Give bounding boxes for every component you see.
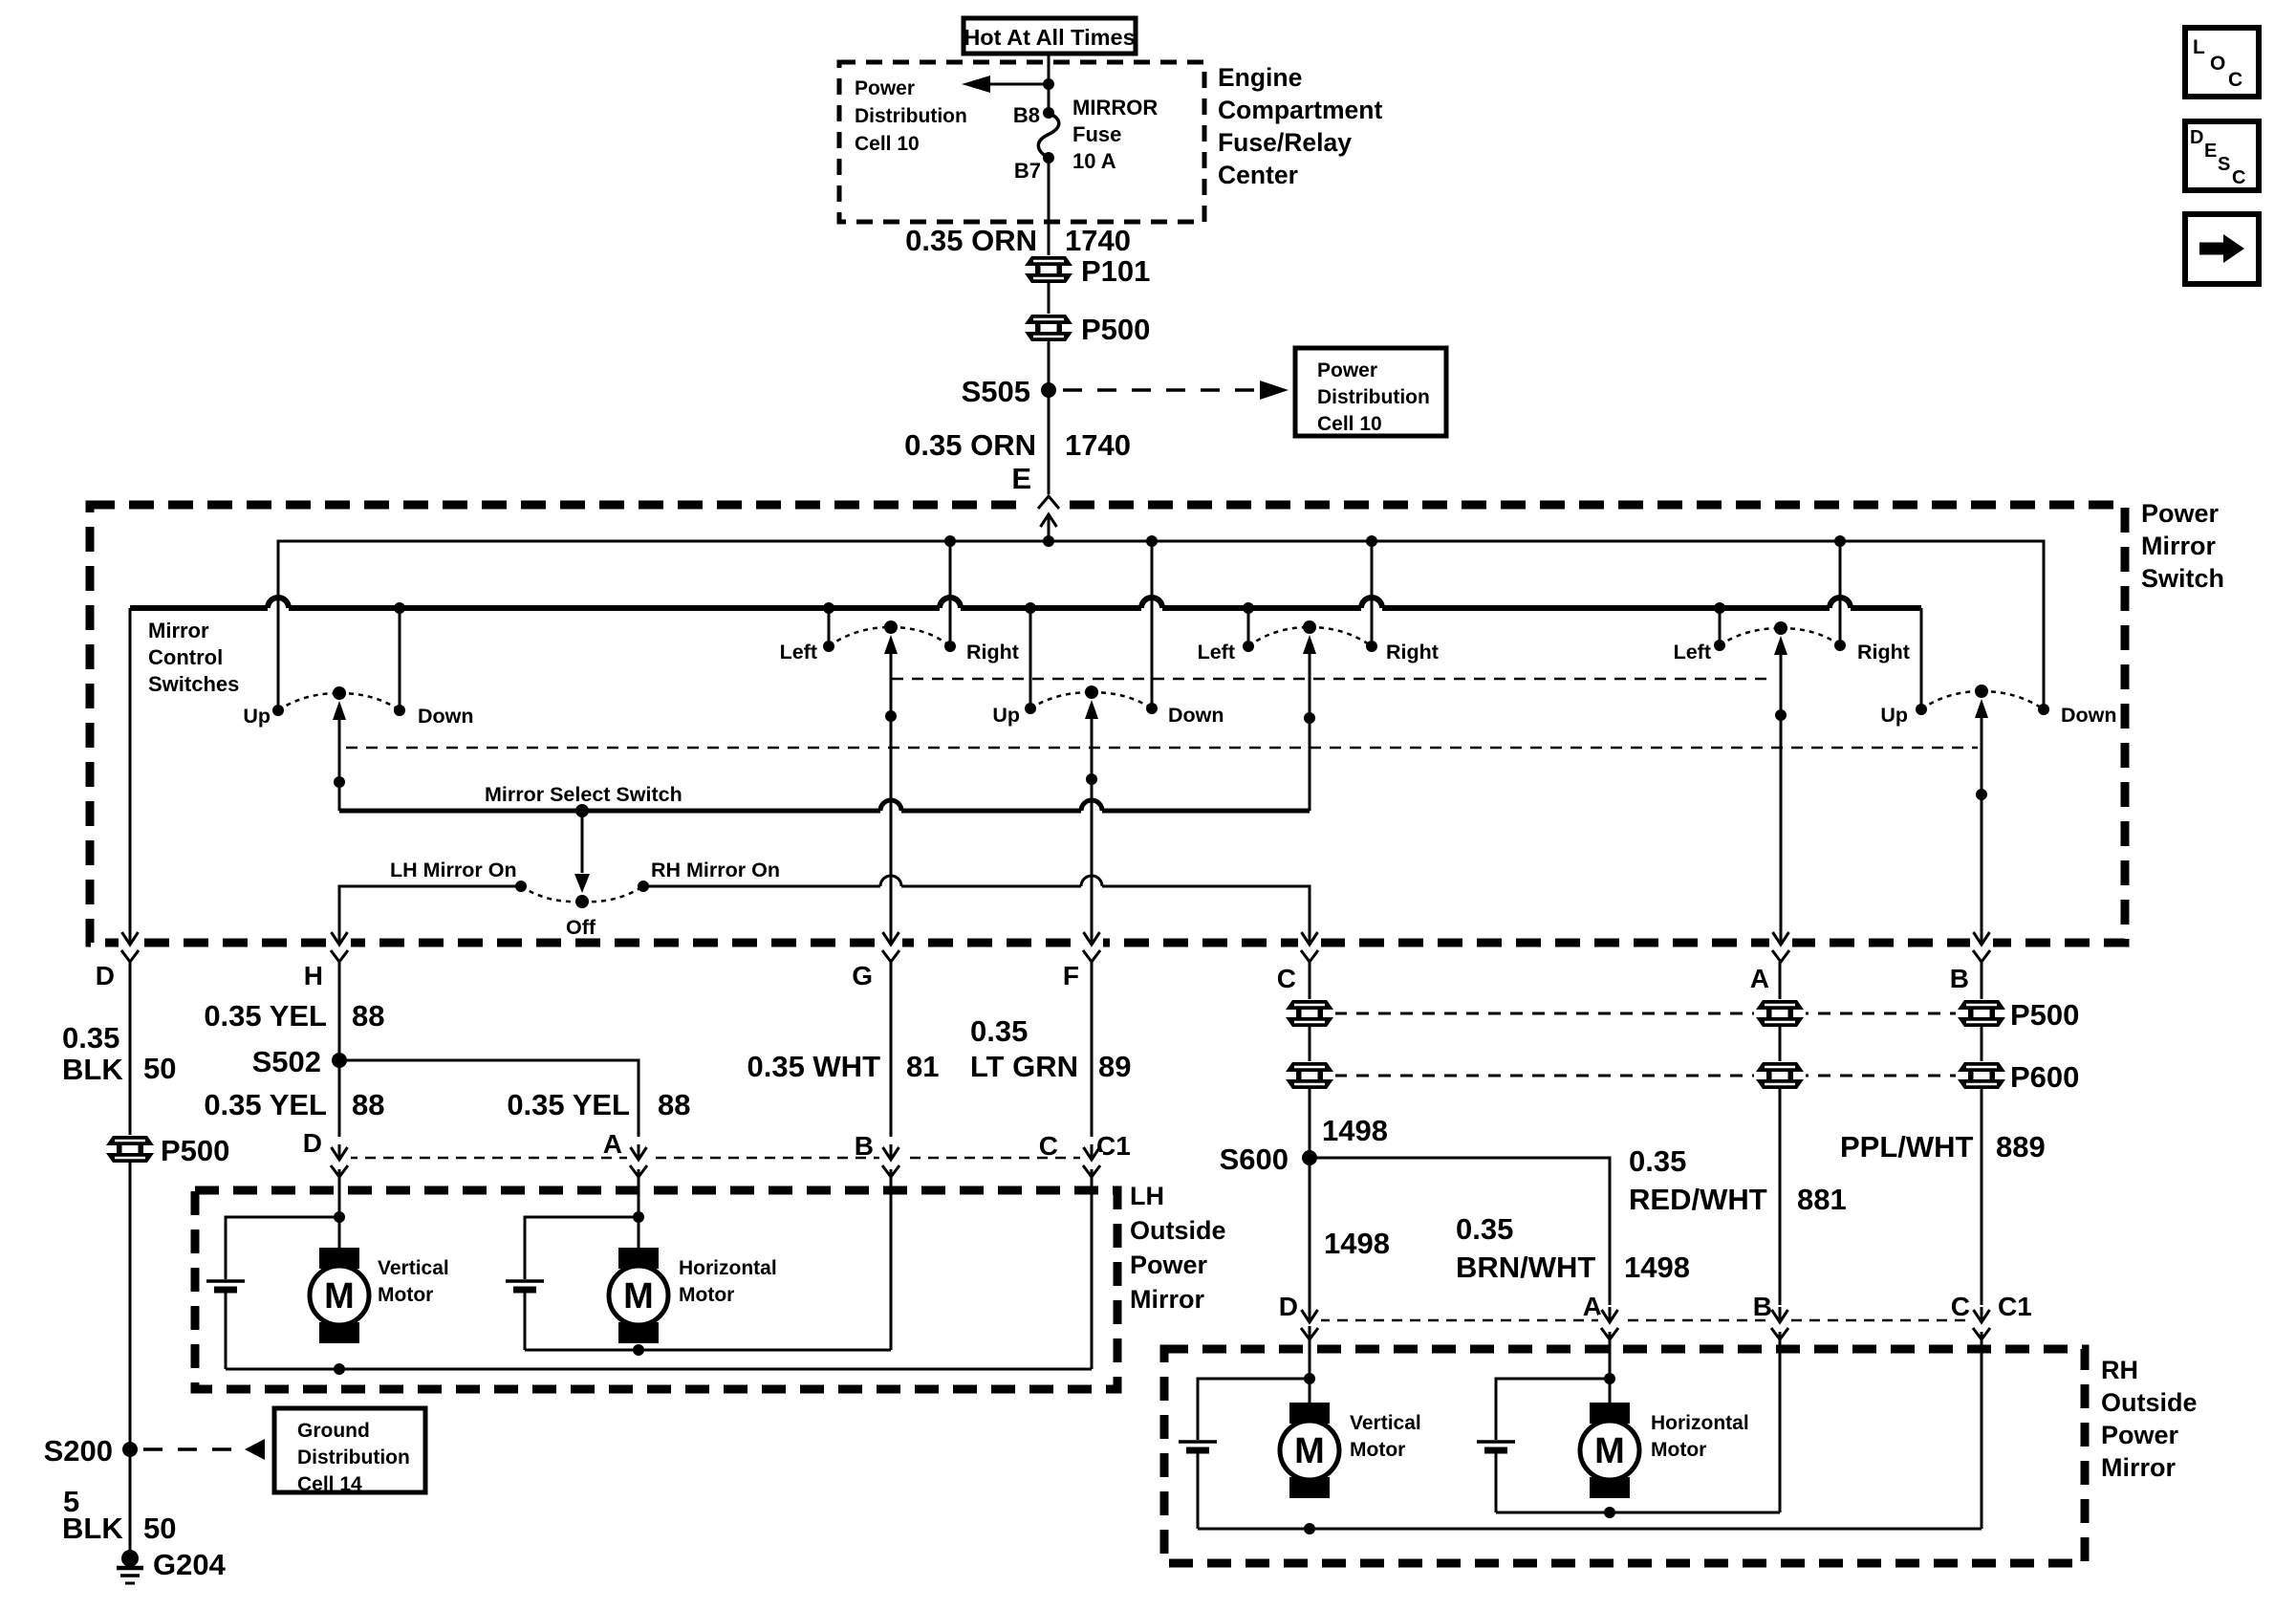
junction LH horizontal motor top	[633, 1211, 644, 1223]
svg-text:RH Mirror On: RH Mirror On	[651, 859, 780, 881]
wire feed from Hot At All Times to B8	[1048, 53, 1051, 112]
connector P600-C symbol	[1284, 1061, 1335, 1090]
svg-text:Right: Right	[1857, 641, 1910, 664]
battery plates LH horizontal	[506, 1281, 544, 1290]
svg-text:Up: Up	[243, 705, 271, 728]
icon box DESC	[2185, 121, 2259, 190]
connector P600-B symbol	[1956, 1061, 2007, 1090]
svg-text:Motor: Motor	[679, 1284, 734, 1306]
label RH Outside Power Mirror	[2101, 1356, 2198, 1482]
motor RH horizontal motor	[1580, 1403, 1639, 1498]
wire RH pin A to horizontal motor	[1609, 1332, 1612, 1422]
box Hot At All Times	[964, 18, 1136, 54]
wire label 0.35 BLK 50	[62, 1021, 176, 1086]
svg-text:O: O	[2210, 53, 2225, 75]
wire crossing (down) at terminal G	[879, 929, 902, 962]
wire LH horizontal return to pin B	[525, 1349, 891, 1352]
dashed box Engine Compartment Fuse/Relay Center	[839, 62, 1204, 222]
dashed box RH Outside Power Mirror	[1164, 1349, 2085, 1563]
svg-text:Mirror: Mirror	[1130, 1285, 1205, 1314]
svg-text:LT GRN: LT GRN	[970, 1050, 1078, 1083]
wire entry hop at E into switch box	[1030, 496, 1069, 541]
svg-text:S502: S502	[252, 1045, 321, 1078]
wire Down3 contact drop	[1151, 541, 1154, 708]
svg-text:BRN/WHT: BRN/WHT	[1456, 1251, 1595, 1284]
svg-text:889: 889	[1996, 1130, 2046, 1164]
dashed reference arrow from S200	[143, 1439, 265, 1460]
junction RH vertical motor bottom	[1304, 1523, 1315, 1534]
svg-text:Motor: Motor	[378, 1284, 433, 1306]
wire label 0.35 WHT 81	[747, 1050, 939, 1083]
wire terminal H to S502	[338, 962, 341, 1137]
wire terminal B down	[1981, 962, 1983, 1001]
wire RH pin B into box	[1779, 1332, 1782, 1512]
wire S600 branch to RH pin A	[1310, 1158, 1610, 1305]
wire RH Mirror On to terminal C	[643, 886, 1310, 938]
hump select line over G wire	[880, 800, 901, 811]
wire RH bottom return to pin C1	[1198, 1528, 1982, 1531]
svg-text:Mirror Select Switch: Mirror Select Switch	[485, 783, 682, 806]
svg-text:A: A	[603, 1129, 622, 1159]
dashed connector link P600 row	[1334, 1075, 1957, 1077]
svg-text:C1: C1	[1998, 1292, 2032, 1321]
svg-text:C: C	[1039, 1131, 1058, 1161]
connector P600-A symbol	[1754, 1061, 1806, 1090]
svg-text:B: B	[1950, 964, 1969, 993]
hump select line over F wire	[1081, 800, 1102, 811]
mechanical link dashed line lower	[346, 747, 1978, 750]
switch S3 Up/Down contacts	[1025, 685, 1158, 714]
wire LH pin C1 into box	[1091, 1169, 1094, 1369]
svg-text:Down: Down	[418, 705, 474, 728]
label Vertical Motor (LH)	[378, 1257, 449, 1306]
wire Right5 contact drop	[1839, 541, 1842, 645]
switch S5 Left/Right contacts	[1714, 621, 1846, 651]
svg-text:Cell 10: Cell 10	[855, 133, 920, 155]
svg-text:P101: P101	[1081, 254, 1150, 288]
wire Left4 contact drop	[1247, 608, 1250, 646]
ground G204 symbol	[117, 1550, 143, 1583]
splice S600	[1302, 1150, 1317, 1165]
wire Down1 contact drop	[399, 608, 401, 710]
connector P500 (ground wire) symbol	[104, 1135, 156, 1164]
svg-text:D: D	[2190, 127, 2203, 148]
select switch pivot	[574, 804, 590, 893]
mechanical link dashed line upper	[892, 678, 1773, 681]
select switch Off contact	[521, 886, 643, 908]
wire crossing (down) at terminal B	[1970, 929, 1993, 962]
svg-text:BLK: BLK	[62, 1512, 123, 1545]
svg-text:RED/WHT: RED/WHT	[1629, 1183, 1767, 1216]
arrow to Power Distribution Cell 10	[962, 76, 1049, 93]
wire crossing (down) at pin RH-C1	[1970, 1307, 1993, 1339]
icon box arrow	[2185, 214, 2259, 284]
svg-text:Power: Power	[2141, 499, 2220, 528]
svg-text:89: 89	[1098, 1050, 1131, 1083]
wire A terminal to RH pin B	[1779, 1088, 1782, 1305]
junction dots on thick bus	[394, 602, 1725, 614]
wire LH horizontal battery to return	[524, 1292, 527, 1350]
wire LH Mirror On to terminal H	[339, 886, 521, 938]
svg-text:0.35 ORN: 0.35 ORN	[905, 224, 1037, 257]
svg-text:D: D	[1279, 1292, 1298, 1321]
wire crossing (down) at pin RH-B	[1768, 1307, 1791, 1339]
battery plates RH vertical	[1179, 1442, 1217, 1450]
wire LH pin A to horizontal motor	[638, 1169, 640, 1267]
wire crossing (down) at terminal H	[328, 929, 351, 962]
svg-text:50: 50	[143, 1512, 176, 1545]
LH connector dashed pin line	[329, 1157, 1104, 1160]
svg-text:0.35: 0.35	[970, 1014, 1028, 1048]
motor LH vertical motor	[310, 1248, 369, 1343]
switch S6 arm wire to terminal B	[1975, 699, 1988, 938]
svg-text:D: D	[96, 961, 115, 990]
svg-text:Left: Left	[1198, 641, 1235, 664]
svg-text:0.35 YEL: 0.35 YEL	[204, 999, 327, 1033]
wire label 0.35 LT GRN 89	[970, 1014, 1132, 1083]
svg-text:Power: Power	[1317, 359, 1377, 381]
svg-text:P500: P500	[1081, 313, 1150, 346]
svg-text:S: S	[2218, 154, 2230, 175]
wire Left5 contact drop	[1719, 608, 1722, 645]
switch S1 Up/Down contacts	[272, 686, 405, 716]
connector P500-C symbol	[1284, 999, 1335, 1028]
wire LH pin B into box	[890, 1169, 893, 1350]
label Power Distribution Cell 10 (fuse box)	[855, 77, 967, 155]
dashed connector link P500 row	[1334, 1012, 1957, 1015]
svg-text:B8: B8	[1013, 103, 1040, 127]
svg-text:Mirror: Mirror	[148, 619, 209, 642]
wire label 0.35 ORN 1740 (upper)	[905, 224, 1131, 257]
junction on feed at arrow	[1043, 78, 1054, 90]
switch S5 arm wire to terminal A	[1774, 636, 1787, 938]
svg-text:C: C	[1277, 964, 1296, 993]
svg-text:PPL/WHT: PPL/WHT	[1840, 1130, 1974, 1164]
svg-text:0.35 ORN: 0.35 ORN	[904, 428, 1036, 462]
svg-text:Cell 10: Cell 10	[1317, 413, 1382, 435]
svg-text:1498: 1498	[1324, 1227, 1390, 1260]
svg-text:Outside: Outside	[1130, 1216, 1226, 1245]
wire label PPL/WHT 889	[1840, 1130, 2046, 1164]
svg-text:C: C	[1951, 1292, 1970, 1321]
icon box LOC	[2185, 28, 2259, 97]
junction RH horizontal motor bottom	[1604, 1507, 1615, 1518]
splice S502	[332, 1053, 347, 1068]
wire C between connectors	[1309, 1026, 1311, 1063]
hump over Right5 wire	[1830, 598, 1851, 608]
hump over Right4 wire	[1361, 598, 1382, 608]
svg-text:LH: LH	[1130, 1182, 1164, 1210]
wire crossing (down) at terminal A	[1769, 929, 1792, 962]
switch S2 Left/Right contacts	[823, 620, 956, 652]
svg-text:P600: P600	[2010, 1060, 2079, 1094]
fuse MIRROR 10A element	[1038, 113, 1058, 158]
wire crossing (down) at terminal D	[119, 929, 141, 962]
connector P101 symbol	[1023, 255, 1074, 284]
svg-text:Right: Right	[1386, 641, 1439, 664]
label Power Mirror Switch	[2141, 499, 2224, 593]
svg-text:Horizontal: Horizontal	[1651, 1412, 1749, 1434]
thick bus right drop to Up6 contact	[1920, 608, 1923, 709]
connector P500-A symbol	[1754, 999, 1806, 1028]
svg-text:G: G	[852, 961, 873, 990]
wire label 0.35 ORN 1740 (lower)	[904, 428, 1131, 462]
motor RH vertical motor	[1280, 1403, 1339, 1498]
top bus wire	[278, 541, 2044, 710]
hump RH-on line over G wire	[880, 876, 901, 886]
junction LH vertical motor top	[334, 1211, 345, 1223]
svg-text:M: M	[324, 1276, 355, 1316]
svg-text:1498: 1498	[1322, 1114, 1388, 1147]
svg-text:Compartment: Compartment	[1218, 96, 1382, 124]
wire crossing (down) at pin LH-C1	[1080, 1144, 1103, 1177]
wire crossing (down) at terminal F	[1080, 929, 1103, 962]
svg-text:M: M	[1294, 1431, 1325, 1471]
thick bus wire with humps	[130, 605, 1921, 611]
wire P101 to P500	[1048, 282, 1051, 315]
dashed box Power Mirror Switch	[90, 505, 2125, 943]
wire terminal A down	[1779, 962, 1782, 1001]
wire S502 branch to LH pin A	[339, 1060, 639, 1137]
wire P500 to S200	[129, 1162, 132, 1442]
wire B between connectors	[1981, 1026, 1983, 1063]
dashed reference arrow from S505	[1063, 381, 1289, 400]
svg-text:Left: Left	[1674, 641, 1711, 664]
hump RH-on line over F wire	[1081, 876, 1102, 886]
svg-text:Distribution: Distribution	[855, 105, 967, 127]
svg-text:LH Mirror On: LH Mirror On	[390, 859, 517, 881]
svg-text:Off: Off	[566, 916, 596, 939]
svg-text:Motor: Motor	[1651, 1439, 1706, 1461]
label Mirror Control Switches	[148, 619, 239, 696]
hump over Down3 wire	[1141, 598, 1162, 608]
svg-text:Fuse/Relay: Fuse/Relay	[1218, 128, 1352, 157]
wire crossing (down) at pin RH-D	[1298, 1307, 1321, 1339]
hump over Right2 wire	[940, 598, 961, 608]
connector P500 symbol	[1023, 314, 1074, 342]
wire label 0.35 YEL 88 (right lower)	[507, 1088, 690, 1121]
svg-text:M: M	[623, 1276, 654, 1316]
svg-text:Mirror: Mirror	[2101, 1453, 2177, 1482]
wire to LH vertical battery	[226, 1217, 339, 1279]
wire RH vertical battery to bottom	[1197, 1452, 1200, 1529]
connector P500-B symbol	[1956, 999, 2007, 1028]
select contact LH Mirror On	[515, 881, 527, 892]
svg-text:Power: Power	[855, 77, 915, 99]
wire crossing (down) at pin LH-B	[879, 1144, 902, 1177]
svg-text:Down: Down	[1168, 704, 1224, 727]
wire Up3 contact drop	[1029, 608, 1032, 708]
wire RH pin C1 into box	[1981, 1332, 1983, 1529]
svg-text:P500: P500	[161, 1134, 229, 1167]
svg-text:Left: Left	[780, 641, 817, 664]
svg-text:10 A: 10 A	[1072, 149, 1116, 173]
wire S200 to G204	[129, 1457, 132, 1553]
svg-text:88: 88	[352, 1088, 384, 1121]
svg-text:0.35: 0.35	[1456, 1212, 1513, 1246]
svg-text:1498: 1498	[1624, 1251, 1690, 1284]
svg-text:81: 81	[906, 1050, 939, 1083]
box Power Distribution Cell 10 (reference)	[1295, 348, 1446, 436]
junction dots on top bus	[944, 535, 1846, 547]
svg-text:H: H	[304, 961, 323, 990]
dashed box LH Outside Power Mirror	[195, 1190, 1117, 1389]
wire Left2 contact drop	[828, 608, 831, 646]
svg-text:BLK: BLK	[62, 1053, 123, 1086]
wire LH bottom return to pin C1	[226, 1368, 1092, 1371]
svg-text:Power: Power	[2101, 1421, 2179, 1449]
label Engine Compartment Fuse/Relay Center	[1218, 63, 1382, 189]
terminal letters under switch box	[96, 961, 1969, 993]
label Horizontal Motor (RH)	[1651, 1412, 1749, 1461]
svg-text:M: M	[1594, 1431, 1625, 1471]
svg-text:0.35 WHT: 0.35 WHT	[747, 1050, 880, 1083]
svg-text:G204: G204	[153, 1548, 227, 1581]
wire Right2 contact drop	[949, 541, 952, 646]
svg-text:Fuse: Fuse	[1072, 122, 1121, 146]
svg-text:Vertical: Vertical	[378, 1257, 449, 1279]
switch S4 arm wire to select line	[1303, 635, 1316, 811]
RH connector dashed pin line	[1301, 1319, 1993, 1322]
splice S200	[122, 1442, 138, 1457]
node B8	[1043, 107, 1054, 119]
wire terminal G to LH pin B	[890, 962, 893, 1137]
wire RH horizontal battery to return	[1495, 1452, 1498, 1512]
svg-text:Right: Right	[966, 641, 1019, 664]
svg-text:0.35 YEL: 0.35 YEL	[204, 1088, 327, 1121]
label MIRROR Fuse 10 A	[1072, 96, 1158, 173]
svg-text:Control: Control	[148, 645, 223, 669]
svg-text:88: 88	[658, 1088, 690, 1121]
wire terminal D down to ground	[129, 962, 132, 1137]
label LH Outside Power Mirror	[1130, 1182, 1226, 1314]
svg-text:E: E	[2204, 141, 2217, 162]
svg-text:Down: Down	[2061, 704, 2117, 727]
svg-text:Up: Up	[1880, 704, 1908, 727]
svg-text:Hot At All Times: Hot At All Times	[964, 25, 1135, 50]
junction LH horizontal motor bottom	[633, 1344, 644, 1356]
wire RH horizontal return to pin B	[1496, 1512, 1780, 1514]
svg-text:S600: S600	[1220, 1142, 1289, 1176]
wire crossing (down) at pin RH-A	[1598, 1307, 1621, 1339]
svg-text:MIRROR: MIRROR	[1072, 96, 1158, 120]
switch S1 arm wire to select line	[333, 701, 346, 811]
svg-text:Outside: Outside	[2101, 1388, 2198, 1417]
switch S3 arm wire to terminal F	[1085, 700, 1098, 938]
switch S2 arm wire to terminal G	[884, 635, 898, 938]
svg-text:E: E	[1011, 462, 1031, 495]
svg-text:Cell 14: Cell 14	[297, 1473, 362, 1495]
svg-text:B: B	[855, 1131, 874, 1161]
svg-text:C: C	[2228, 69, 2242, 91]
svg-text:F: F	[1063, 961, 1079, 990]
wire B7 to P101	[1048, 159, 1051, 257]
wire label 5 BLK 50	[62, 1485, 176, 1545]
svg-text:Switches: Switches	[148, 672, 239, 696]
svg-text:C: C	[2232, 167, 2245, 188]
motor LH horizontal motor	[609, 1248, 668, 1343]
wire B terminal to RH pin C1	[1981, 1088, 1983, 1305]
junction RH horizontal motor top	[1604, 1373, 1615, 1384]
wire to LH horizontal battery	[525, 1217, 639, 1279]
switch S4 Left/Right contacts	[1243, 620, 1377, 652]
svg-text:0.35: 0.35	[62, 1021, 119, 1055]
thick bus left drop to terminal D	[129, 608, 132, 938]
wire to RH horizontal battery	[1496, 1379, 1610, 1440]
wire to RH vertical battery	[1198, 1379, 1310, 1440]
wire label 0.35 BRN/WHT 1498	[1456, 1212, 1690, 1284]
svg-text:Motor: Motor	[1350, 1439, 1405, 1461]
svg-text:Ground: Ground	[297, 1420, 370, 1442]
svg-text:881: 881	[1797, 1183, 1847, 1216]
wire P600 to S600	[1309, 1088, 1311, 1442]
svg-text:P500: P500	[2010, 998, 2079, 1032]
wire label 0.35 YEL 88 (left lower)	[204, 1088, 384, 1121]
wire terminal C down	[1309, 962, 1311, 1001]
svg-text:Up: Up	[992, 704, 1020, 727]
junction LH vertical motor bottom	[334, 1363, 345, 1375]
junction RH vertical motor top	[1304, 1373, 1315, 1384]
select contact RH Mirror On	[638, 881, 649, 892]
svg-text:Center: Center	[1218, 161, 1298, 189]
svg-text:S200: S200	[44, 1434, 113, 1468]
svg-text:D: D	[303, 1128, 322, 1158]
svg-text:50: 50	[143, 1052, 176, 1085]
wire label 0.35 RED/WHT 881	[1629, 1144, 1847, 1216]
svg-text:S505: S505	[962, 375, 1030, 408]
label Vertical Motor (RH)	[1350, 1412, 1421, 1461]
node B7	[1043, 152, 1054, 163]
wire Right4 contact drop	[1371, 541, 1374, 646]
svg-text:88: 88	[352, 999, 384, 1033]
splice S505	[1041, 382, 1056, 398]
mirror select switch feed wire	[339, 809, 1310, 814]
svg-text:Engine: Engine	[1218, 63, 1302, 92]
svg-text:Distribution: Distribution	[297, 1447, 410, 1469]
RH connector pin letters	[1279, 1292, 2032, 1321]
wire crossing (down) at terminal C	[1298, 929, 1321, 962]
wire A between connectors	[1779, 1026, 1782, 1063]
svg-text:A: A	[1750, 964, 1769, 993]
svg-text:1740: 1740	[1065, 428, 1131, 462]
svg-text:Distribution: Distribution	[1317, 386, 1430, 408]
wire LH vertical battery to bottom	[225, 1292, 227, 1369]
svg-text:Horizontal: Horizontal	[679, 1257, 777, 1279]
wire crossing (down) at pin LH-A	[627, 1144, 650, 1177]
label Horizontal Motor (LH)	[679, 1257, 777, 1306]
box Ground Distribution Cell 14	[274, 1408, 425, 1495]
hump over Up1 wire	[268, 598, 289, 608]
wire label 0.35 YEL 88 (upper)	[204, 999, 384, 1033]
wire P500 to S505 to switch box	[1048, 340, 1051, 494]
svg-text:Power: Power	[1130, 1251, 1208, 1279]
wire LH pin D to vertical motor	[338, 1169, 341, 1267]
wire terminal F to LH pin C1	[1091, 962, 1094, 1137]
svg-text:L: L	[2193, 36, 2205, 58]
switch S6 Up/Down contacts	[1916, 685, 2049, 715]
battery plates LH vertical	[206, 1281, 245, 1290]
svg-text:0.35 YEL: 0.35 YEL	[507, 1088, 630, 1121]
svg-text:0.35: 0.35	[1629, 1144, 1686, 1178]
battery plates RH horizontal	[1477, 1442, 1515, 1450]
svg-text:Vertical: Vertical	[1350, 1412, 1421, 1434]
svg-text:Switch: Switch	[2141, 564, 2224, 593]
svg-text:Mirror: Mirror	[2141, 532, 2217, 560]
wire crossing (down) at pin LH-D	[328, 1144, 351, 1177]
svg-text:1740: 1740	[1065, 224, 1131, 257]
wire RH pin D to vertical motor	[1309, 1332, 1311, 1422]
svg-text:RH: RH	[2101, 1356, 2138, 1384]
